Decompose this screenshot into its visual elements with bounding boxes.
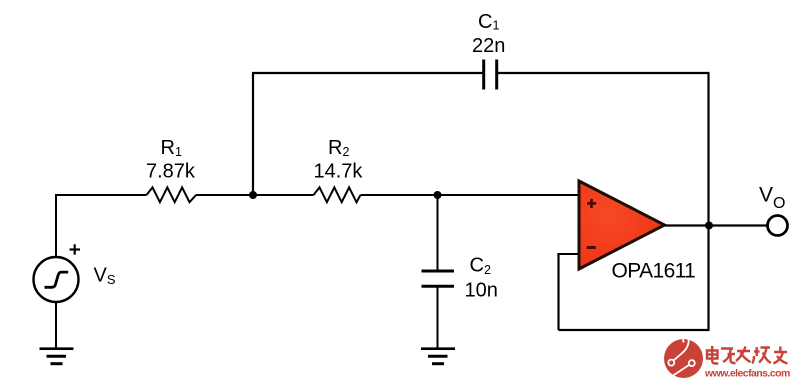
- wire: op-amp output to terminal: [664, 224, 767, 226]
- ground (under source): [40, 349, 74, 364]
- svg-text:C2: C2: [470, 255, 491, 278]
- ground (under C2): [421, 349, 455, 364]
- wire: right vertical from top rail down to feedback bottom: [707, 73, 709, 331]
- svg-text:22n: 22n: [472, 35, 505, 57]
- wire: node A to R2: [253, 194, 314, 196]
- capacitor C2: [422, 271, 455, 286]
- resistor R2: [314, 187, 361, 202]
- wire: node B down to C2: [437, 195, 439, 270]
- wire: node B to op-amp noninverting input: [438, 194, 580, 196]
- terminal Vo: [768, 216, 788, 236]
- wire: source bottom to ground: [55, 302, 57, 349]
- svg-text:OPA1611: OPA1611: [612, 260, 696, 283]
- resistor R1: [147, 187, 197, 202]
- watermark logo circle: [664, 337, 703, 378]
- svg-text:14.7k: 14.7k: [314, 161, 364, 183]
- voltage source Vs: [34, 257, 79, 302]
- svg-text:VO: VO: [759, 184, 785, 213]
- wire: inverting input stub: [559, 253, 580, 255]
- wire: input corner from source to R1: [56, 194, 147, 196]
- svg-text:R2: R2: [328, 137, 349, 159]
- watermark chinese characters: [707, 346, 788, 364]
- capacitor C1: [484, 60, 497, 90]
- svg-text:R1: R1: [161, 137, 182, 159]
- svg-text:10n: 10n: [465, 280, 498, 302]
- svg-text:www.elecfans.com: www.elecfans.com: [704, 368, 790, 380]
- svg-text:7.87k: 7.87k: [146, 161, 196, 183]
- wire: node A up to top rail: [252, 73, 254, 195]
- svg-text:VS: VS: [94, 265, 116, 287]
- wire: top rail right segment: [497, 72, 710, 74]
- wire: feedback left vertical: [557, 253, 559, 330]
- wire: top rail left segment: [252, 72, 484, 74]
- node B junction: [434, 191, 442, 199]
- wire: C2 to ground: [437, 286, 439, 349]
- svg-text:C1: C1: [478, 11, 499, 33]
- wire: R2 to node B: [361, 194, 438, 196]
- wire: source top vertical: [55, 194, 57, 257]
- op-amp plus input marker: [587, 199, 596, 208]
- op-amp minus input marker: [587, 246, 596, 249]
- node A junction: [249, 191, 257, 199]
- op-amp U1 OPA1611: [579, 181, 665, 269]
- plus polarity marker: [70, 244, 81, 254]
- wire: feedback bottom horizontal: [559, 329, 710, 331]
- node: output junction: [705, 222, 713, 230]
- wire: R1 to node A: [196, 194, 253, 196]
